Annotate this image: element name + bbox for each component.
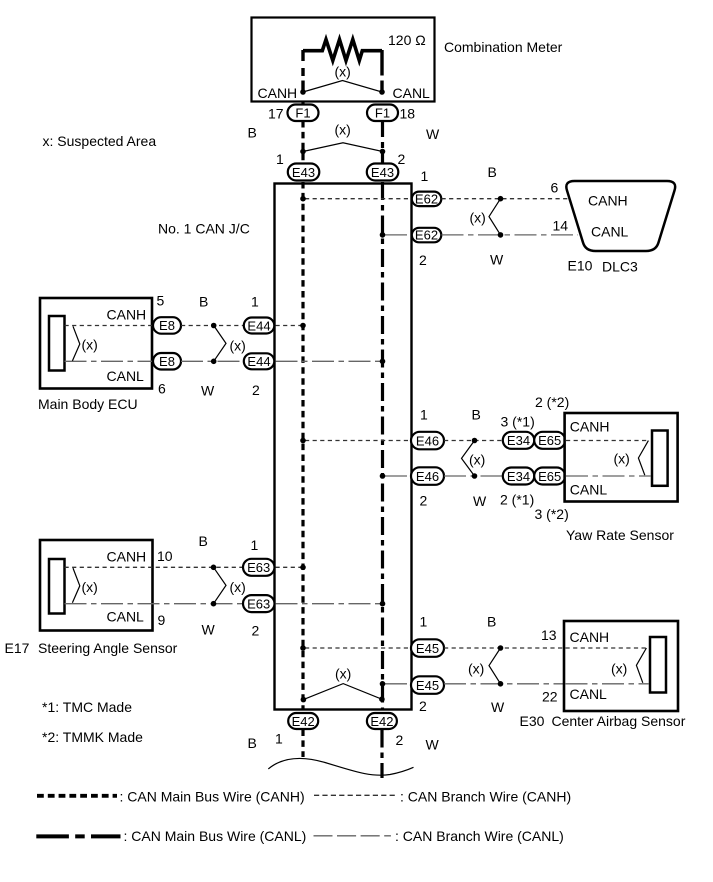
connector E42 pin 2 — [367, 713, 397, 729]
node dot junction CANH row5 — [498, 645, 504, 651]
svg-text:Center Airbag Sensor: Center Airbag Sensor — [552, 713, 686, 729]
node dot bus CANL to E62 — [380, 232, 386, 238]
legend sample CAN main bus CANL — [36, 834, 120, 838]
label Combination Meter — [444, 39, 563, 55]
svg-text:(x): (x) — [614, 450, 630, 466]
svg-text:10: 10 — [157, 548, 173, 564]
svg-text:W: W — [201, 383, 215, 399]
svg-text:No. 1 CAN J/C: No. 1 CAN J/C — [158, 221, 250, 237]
svg-text:: CAN Main Bus Wire (CANH): : CAN Main Bus Wire (CANH) — [120, 788, 305, 804]
svg-text:E45: E45 — [416, 641, 439, 656]
label CANL meter — [393, 85, 431, 101]
svg-text:E65: E65 — [538, 433, 561, 448]
pin number 1 E45 — [420, 614, 428, 630]
wire CANL branch E62 to DLC3 — [442, 234, 579, 236]
legend sample CAN branch CANL — [314, 835, 391, 837]
node dot bus CANL row5 — [380, 681, 386, 687]
svg-text:3 (*1): 3 (*1) — [501, 414, 535, 430]
legend sample CAN main bus CANH — [37, 794, 117, 798]
svg-text:E30: E30 — [520, 713, 545, 729]
svg-text:E46: E46 — [416, 433, 439, 448]
connector E65 CANH — [534, 432, 565, 449]
label CANL ECU — [107, 368, 145, 384]
label CANH meter — [258, 85, 298, 101]
wire CANL E45 to airbag sensor — [444, 683, 565, 685]
label (x) row3 — [469, 451, 485, 467]
svg-text:W: W — [426, 126, 440, 142]
svg-text:1: 1 — [251, 537, 259, 553]
connector E63 pin 2 — [243, 595, 275, 612]
svg-text:CANH: CANH — [258, 85, 298, 101]
svg-text:CANL: CANL — [591, 224, 629, 240]
wire CANL branch bus to E45 — [385, 683, 411, 685]
label CANL airbag — [570, 686, 608, 702]
svg-text:CANL: CANL — [570, 481, 608, 497]
svg-text:(x): (x) — [335, 121, 351, 137]
node dot CANH meter — [300, 89, 306, 95]
svg-text:(x): (x) — [611, 660, 627, 676]
svg-text:(x): (x) — [230, 579, 246, 595]
pin number 17 — [268, 106, 284, 122]
wire W CANL F1 to E43 — [381, 121, 384, 164]
wire CANH drop inside meter — [301, 50, 304, 92]
svg-text:: CAN Branch Wire (CANH): : CAN Branch Wire (CANH) — [400, 788, 571, 804]
label *1: TMC Made — [42, 699, 132, 715]
svg-text:CANL: CANL — [107, 609, 145, 625]
yaw rate sensor connector rect — [652, 431, 668, 486]
svg-text:: CAN Main Bus Wire (CANL): : CAN Main Bus Wire (CANL) — [124, 828, 307, 844]
wire CANL inside yaw sensor — [566, 475, 651, 477]
svg-text:2: 2 — [252, 623, 260, 639]
pin number 2 E62 — [419, 252, 427, 268]
label (x) row1 — [470, 210, 486, 226]
svg-text:F1: F1 — [295, 105, 310, 120]
label (x) row4 — [230, 579, 246, 595]
pin number 6 DLC3 — [551, 180, 559, 196]
pin number 22 — [542, 689, 558, 705]
connector E34 CANH — [503, 432, 535, 449]
connector E34 CANL — [503, 468, 535, 485]
svg-text:E34: E34 — [507, 469, 530, 484]
node dot junction CANH row2 — [211, 323, 217, 329]
node dot bus CANH row5 — [300, 645, 306, 651]
svg-text:CANL: CANL — [393, 85, 431, 101]
svg-text:x: Suspected Area: x: Suspected Area — [43, 133, 157, 149]
svg-text:1: 1 — [421, 168, 429, 184]
connector E42 pin 1 — [288, 713, 318, 729]
combination meter box — [252, 18, 435, 102]
svg-text:17: 17 — [268, 106, 284, 122]
svg-text:B: B — [472, 407, 481, 423]
svg-text:E45: E45 — [416, 678, 439, 693]
wire CANL branch bus to E62 — [385, 234, 412, 236]
wire CANL below E42 — [380, 730, 383, 779]
svg-text:6: 6 — [158, 381, 166, 397]
svg-text:E44: E44 — [247, 318, 270, 333]
CAN main bus wire CANH vertical — [301, 182, 304, 709]
svg-text:2: 2 — [420, 493, 428, 509]
pointer chevron to (x) in yaw sensor — [638, 441, 648, 476]
node dot bus CANL row4 — [380, 601, 386, 607]
wire color label B row3 — [472, 407, 481, 423]
svg-text:B: B — [487, 614, 496, 630]
connector E44 pin 1 — [244, 318, 274, 334]
svg-text:*1: TMC Made: *1: TMC Made — [42, 699, 132, 715]
wire color label W row1 — [490, 252, 504, 268]
node dot bus CANH row3 — [300, 438, 306, 444]
connector E45 pin 2 — [411, 676, 444, 694]
label (x) in ECU — [82, 337, 98, 353]
node dot junction CANL row3 — [472, 473, 478, 479]
pin number 6 E8 — [158, 381, 166, 397]
connector E8 CANH — [153, 317, 181, 334]
svg-text:18: 18 — [400, 106, 416, 122]
svg-text:F1: F1 — [375, 105, 390, 120]
svg-text:(x): (x) — [82, 337, 98, 353]
svg-text:E62: E62 — [415, 228, 438, 243]
svg-text:CANL: CANL — [107, 368, 145, 384]
connector E43 pin 1 — [288, 164, 320, 181]
pointer chevron to (x) row3 — [462, 441, 475, 477]
svg-text:1: 1 — [275, 731, 283, 747]
pin number 14 DLC3 — [553, 218, 569, 234]
svg-text:(x): (x) — [335, 666, 351, 682]
node dot bus CANL row3 — [380, 473, 386, 479]
svg-text:E62: E62 — [415, 192, 438, 207]
pointer chevron to (x) row1 — [489, 199, 501, 235]
pin number 2 E45 — [419, 698, 427, 714]
connector F1 pin 18 — [367, 105, 398, 122]
svg-text:Yaw Rate Sensor: Yaw Rate Sensor — [566, 527, 674, 543]
pin number 2 E44 — [252, 382, 260, 398]
connector E46 pin 2 — [411, 467, 444, 485]
wire color label B row4 — [199, 533, 208, 549]
label CANH airbag — [570, 629, 610, 645]
label DLC3 — [602, 259, 638, 275]
label CANL DLC3 — [591, 224, 629, 240]
svg-text:CANH: CANH — [107, 307, 147, 323]
pin number 1 E44 — [251, 294, 259, 310]
wire CANH inside airbag sensor — [566, 647, 647, 649]
pointer lines to (x) bottom — [303, 684, 382, 700]
svg-text:E42: E42 — [370, 714, 393, 729]
pointer chevron to (x) row5 — [489, 648, 501, 684]
break squiggle — [268, 758, 413, 775]
label CANH yaw — [570, 418, 610, 434]
wire color label B — [248, 125, 257, 141]
node dot CANL above E43 — [380, 149, 386, 155]
svg-text:1: 1 — [276, 151, 284, 167]
pointer lines to (x) in meter — [303, 81, 382, 93]
connector E62 pin 1 — [412, 192, 442, 207]
wire CANH E45 to airbag sensor — [444, 647, 565, 649]
svg-text:(x): (x) — [230, 338, 246, 354]
wire CANH E63 to bus — [276, 566, 302, 568]
svg-text:6: 6 — [551, 180, 559, 196]
wire CANL inside airbag sensor — [566, 683, 650, 685]
node dot bottom CANH — [301, 697, 307, 703]
pin label 3 (*1) — [501, 414, 535, 430]
wire CANH below E42 — [301, 730, 304, 758]
connector E62 pin 2 — [412, 228, 442, 243]
label (x) row2 — [230, 338, 246, 354]
svg-text:Steering Angle Sensor: Steering Angle Sensor — [38, 640, 178, 656]
svg-text:E43: E43 — [292, 165, 315, 180]
label CANH ECU — [107, 307, 147, 323]
node dot junction CANH row3 — [472, 438, 478, 444]
svg-text:CANH: CANH — [588, 192, 628, 208]
legend sample CAN branch CANH — [314, 794, 396, 796]
svg-text:E63: E63 — [247, 560, 270, 575]
wire CANH branch E62 to DLC3 — [442, 198, 570, 200]
label *2: TMMK Made — [42, 729, 143, 745]
svg-text:W: W — [491, 699, 505, 715]
wire CANL sensor to E63 — [65, 603, 244, 605]
wire CANH sensor to E63 — [65, 566, 244, 568]
svg-text:(x): (x) — [468, 660, 484, 676]
wire CANH inside yaw sensor — [566, 440, 648, 442]
wire CANL E63 to bus — [276, 603, 381, 605]
svg-text:E43: E43 — [371, 165, 394, 180]
label x: Suspected Area — [43, 133, 157, 149]
junction block No.1 CAN J/C box — [275, 184, 412, 710]
pin number 2 E46 — [420, 493, 428, 509]
node dot junction CANL row2 — [211, 359, 217, 365]
svg-text:3 (*2): 3 (*2) — [535, 506, 569, 522]
svg-text:E8: E8 — [159, 318, 175, 333]
wire color label W — [426, 126, 440, 142]
svg-text:B: B — [199, 294, 208, 310]
svg-text:CANH: CANH — [570, 629, 610, 645]
center airbag sensor box — [564, 621, 678, 711]
svg-text:2: 2 — [398, 151, 406, 167]
svg-text:: CAN Branch Wire (CANL): : CAN Branch Wire (CANL) — [395, 828, 564, 844]
label (x) between F1 and E43 — [335, 121, 351, 137]
connector E65 CANL — [534, 468, 565, 485]
svg-text:CANL: CANL — [570, 686, 608, 702]
wire CANH meter to F1 — [301, 102, 304, 105]
svg-text:E42: E42 — [292, 714, 315, 729]
svg-text:22: 22 — [542, 689, 558, 705]
connector E45 pin 1 — [411, 639, 444, 657]
main body ECU box — [40, 298, 152, 389]
node dot junction CANL row4 — [211, 601, 217, 607]
node dot bus CANL row2 — [380, 359, 386, 365]
svg-text:W: W — [473, 493, 487, 509]
label (x) bottom — [335, 666, 351, 682]
pin number 2 E43 — [398, 151, 406, 167]
connector E8 CANL — [153, 353, 181, 370]
legend label CAN Main Bus Wire CANL — [124, 828, 307, 844]
node dot bus CANH row2 — [300, 323, 306, 329]
pin number 10 — [157, 548, 173, 564]
pin number 1 E43 — [276, 151, 284, 167]
label CANL yaw — [570, 481, 608, 497]
wire color label W row5 — [491, 699, 505, 715]
svg-text:B: B — [199, 533, 208, 549]
svg-text:E34: E34 — [507, 433, 530, 448]
svg-text:W: W — [490, 252, 504, 268]
pin label 2 (*2) — [535, 394, 569, 410]
wire color label B bottom — [248, 735, 257, 751]
svg-text:1: 1 — [251, 294, 259, 310]
svg-text:B: B — [248, 735, 257, 751]
node dot junction CANL row1 — [498, 232, 504, 238]
pointer chevron to (x) row2 — [214, 326, 226, 362]
center airbag sensor connector rect — [650, 637, 666, 693]
node dot CANH above E43 — [300, 149, 306, 155]
wire CANL E46 to E34 — [444, 475, 503, 477]
pin number 1 E62 — [421, 168, 429, 184]
svg-text:(x): (x) — [335, 64, 351, 80]
pin number 13 — [541, 627, 557, 643]
pin number 9 — [158, 612, 166, 628]
svg-text:2: 2 — [252, 382, 260, 398]
node dot bus CANH to E62 — [300, 196, 306, 202]
svg-text:W: W — [202, 622, 216, 638]
legend label CAN Branch Wire CANH — [400, 788, 571, 804]
connector E44 pin 2 — [244, 353, 274, 369]
legend label CAN Branch Wire CANL — [395, 828, 564, 844]
svg-text:Combination Meter: Combination Meter — [444, 39, 563, 55]
svg-text:W: W — [426, 737, 440, 753]
label E10 — [568, 258, 593, 274]
svg-text:CANH: CANH — [107, 549, 147, 565]
svg-text:B: B — [248, 125, 257, 141]
connector E43 pin 2 — [367, 164, 399, 181]
pointer lines to (x) above E43 — [303, 143, 383, 152]
wire color label W row4 — [202, 622, 216, 638]
wire CANL branch bus to E46 — [385, 475, 411, 477]
svg-text:2: 2 — [419, 252, 427, 268]
svg-text:1: 1 — [420, 614, 428, 630]
svg-text:E10: E10 — [568, 258, 593, 274]
value label 120 ohm — [388, 32, 426, 48]
svg-text:2: 2 — [419, 698, 427, 714]
wire CANL E8 to E44 — [181, 360, 244, 362]
label (x) in yaw sensor — [614, 450, 630, 466]
svg-text:DLC3: DLC3 — [602, 259, 638, 275]
label No. 1 CAN J/C — [158, 221, 250, 237]
pin label 2 (*1) — [500, 491, 534, 507]
label CANL steering — [107, 609, 145, 625]
wire CANH E44 to bus — [276, 325, 302, 327]
wire color label B row2 — [199, 294, 208, 310]
wire color label W row2 — [201, 383, 215, 399]
node dot junction CANL row5 — [498, 681, 504, 687]
svg-text:(x): (x) — [469, 451, 485, 467]
pin number 5 E8 — [157, 293, 165, 309]
steering angle sensor box — [40, 540, 153, 631]
wire color label W row3 — [473, 493, 487, 509]
svg-text:*2: TMMK Made: *2: TMMK Made — [42, 729, 143, 745]
svg-text:E63: E63 — [247, 597, 270, 612]
yaw rate sensor box — [565, 413, 678, 502]
svg-text:B: B — [488, 164, 497, 180]
DLC3 connector shape — [566, 181, 675, 251]
wire CANH E8 to E44 — [181, 325, 244, 327]
svg-text:(x): (x) — [82, 579, 98, 595]
wire CANH E46 to E34 — [444, 440, 503, 442]
svg-text:E65: E65 — [538, 469, 561, 484]
wire CANL drop inside meter — [380, 50, 383, 92]
pointer chevron to (x) in ECU — [72, 326, 79, 361]
label (x) in steering sensor — [82, 579, 98, 595]
pin number 2 E42 — [396, 732, 404, 748]
label CANH steering — [107, 549, 147, 565]
svg-text:120 Ω: 120 Ω — [388, 32, 426, 48]
label Main Body ECU — [38, 396, 138, 412]
svg-text:E8: E8 — [159, 354, 175, 369]
label E17 Steering Angle Sensor — [5, 640, 178, 656]
pin number 1 E42 — [275, 731, 283, 747]
connector E46 pin 1 — [411, 432, 444, 450]
label Yaw Rate Sensor — [566, 527, 674, 543]
wire CANH branch bus to E45 — [305, 647, 411, 649]
svg-text:1: 1 — [420, 407, 428, 423]
svg-text:(x): (x) — [470, 210, 486, 226]
wire CANL E44 to bus — [276, 360, 381, 362]
pin number 1 E63 — [251, 537, 259, 553]
svg-text:9: 9 — [158, 612, 166, 628]
node dot bus CANH row4 — [300, 565, 306, 571]
svg-text:Main Body ECU: Main Body ECU — [38, 396, 138, 412]
main body ECU connector rect — [49, 316, 65, 371]
pointer chevron to (x) row4 — [214, 567, 227, 603]
pin number 2 E63 — [252, 623, 260, 639]
label CANH DLC3 — [588, 192, 628, 208]
node dot bottom CANL — [379, 696, 385, 702]
legend label CAN Main Bus Wire CANH — [120, 788, 305, 804]
label (x) row5 — [468, 660, 484, 676]
wire color label B row1 — [488, 164, 497, 180]
svg-text:13: 13 — [541, 627, 557, 643]
node dot junction CANH row1 — [498, 196, 504, 202]
resistor R 120 ohm — [303, 40, 382, 61]
wire CANH branch bus to E62 — [305, 198, 412, 200]
svg-text:5: 5 — [157, 293, 165, 309]
pin number 1 E46 — [420, 407, 428, 423]
pointer chevron to (x) in steering sensor — [72, 568, 79, 603]
steering angle sensor connector rect — [49, 559, 65, 614]
label E30 Center Airbag Sensor — [520, 713, 686, 729]
svg-text:E44: E44 — [247, 354, 270, 369]
svg-text:E17: E17 — [5, 640, 30, 656]
wire CANL ECU to E8 — [65, 360, 154, 362]
node dot CANL meter — [379, 89, 385, 95]
label (x) under resistor — [335, 64, 351, 80]
wire CANH ECU to E8 — [65, 325, 154, 327]
svg-text:2 (*2): 2 (*2) — [535, 394, 569, 410]
pointer chevron to (x) in airbag sensor — [636, 648, 646, 683]
svg-text:E46: E46 — [416, 469, 439, 484]
svg-text:14: 14 — [553, 218, 569, 234]
node dot junction CANH row4 — [211, 565, 217, 571]
wire B CANH F1 to E43 — [301, 121, 304, 164]
svg-text:CANH: CANH — [570, 418, 610, 434]
label (x) in airbag sensor — [611, 660, 627, 676]
pin label 3 (*2) — [535, 506, 569, 522]
CAN main bus wire CANL vertical — [381, 182, 384, 709]
wire color label B row5 — [487, 614, 496, 630]
wire color label W bottom — [426, 737, 440, 753]
wire CANH branch bus to E46 — [305, 440, 411, 442]
connector F1 pin 17 — [288, 105, 319, 122]
connector E63 pin 1 — [243, 559, 275, 576]
svg-text:2: 2 — [396, 732, 404, 748]
svg-text:2 (*1): 2 (*1) — [500, 491, 534, 507]
pin number 18 — [400, 106, 416, 122]
